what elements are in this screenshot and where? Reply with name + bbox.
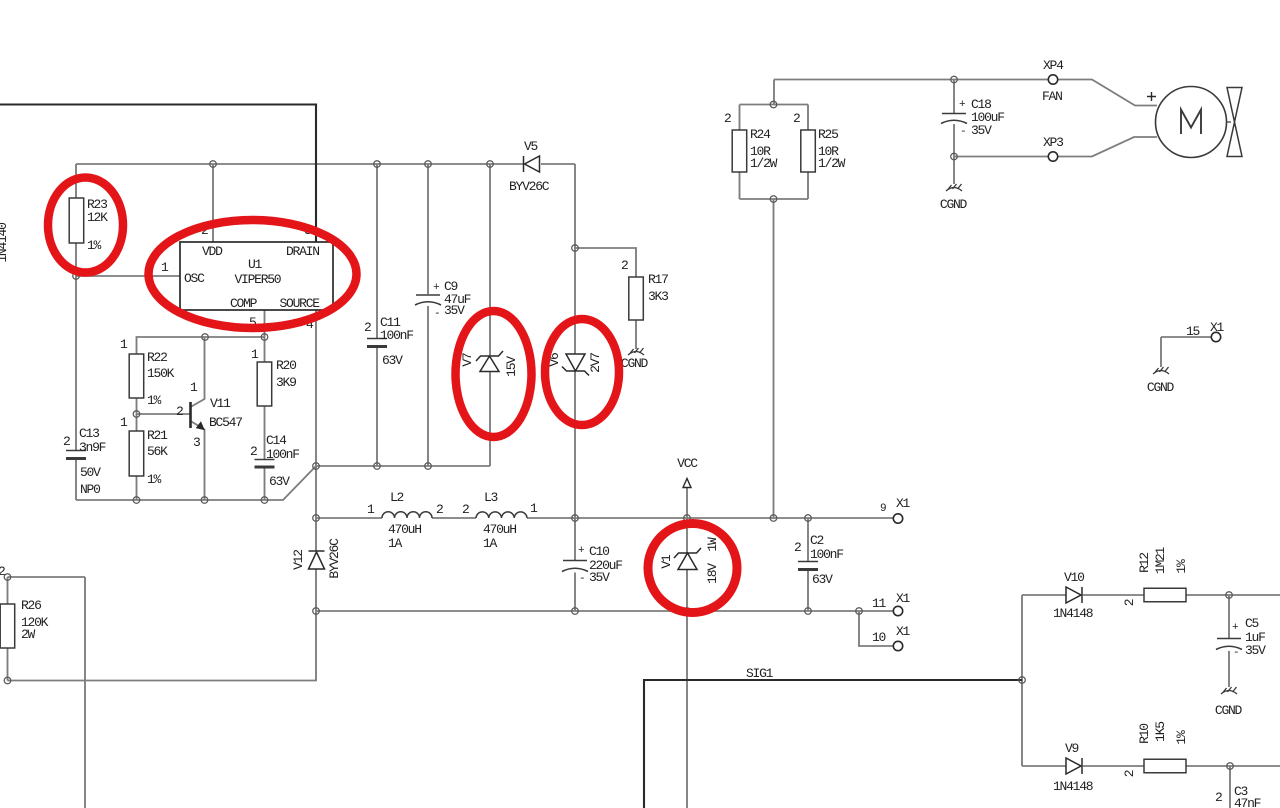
svg-text:X1: X1 [896, 496, 911, 511]
zener V7 15V [476, 351, 503, 372]
marker ellipse around V7 [456, 311, 532, 437]
svg-text:COMP: COMP [230, 296, 258, 311]
svg-text:3K9: 3K9 [276, 375, 296, 390]
node C9 top [425, 161, 432, 168]
svg-text:2: 2 [462, 502, 469, 517]
svg-text:1%: 1% [147, 393, 162, 408]
wire R21 top lead [136, 414, 138, 431]
svg-text:2: 2 [1215, 790, 1222, 805]
wire R22 top lead [137, 337, 265, 354]
motor M1 body [1156, 87, 1227, 158]
node source/gnd [313, 463, 320, 470]
wire bottom rail of divider [76, 466, 316, 500]
svg-text:C14: C14 [266, 433, 287, 448]
svg-text:1/2W: 1/2W [750, 156, 778, 171]
node source/LC [313, 515, 320, 522]
svg-text:XP3: XP3 [1043, 135, 1063, 150]
svg-text:56K: 56K [147, 444, 168, 459]
node C11 bottom [374, 463, 381, 470]
zener V6 2V7 [562, 354, 589, 376]
svg-text:X1: X1 [896, 624, 911, 639]
node V7 top [487, 161, 494, 168]
resistor R21 [129, 431, 144, 476]
node gnd rail C [261, 497, 268, 504]
wire C14 bottom lead [264, 467, 266, 500]
svg-text:V5: V5 [524, 139, 538, 154]
wire R12 to edge [1186, 594, 1280, 596]
ground CGND under X1-15 [1153, 367, 1169, 374]
wire SIG1 net [644, 680, 1022, 808]
wire V6 bottom lead [574, 372, 576, 519]
node VCC [684, 515, 691, 522]
wire V12 to node [315, 569, 317, 611]
node gnd rail A [133, 497, 140, 504]
svg-text:35V: 35V [444, 303, 465, 318]
wire R24 bottom lead [739, 172, 741, 199]
svg-text:2: 2 [621, 258, 628, 273]
zener V1 18V [674, 548, 701, 570]
wire R17 branch [575, 248, 636, 277]
wire V9 row left [1022, 765, 1066, 767]
svg-text:18V: 18V [705, 563, 720, 584]
svg-text:1K5: 1K5 [1153, 722, 1168, 742]
node C2 top [805, 515, 812, 522]
inductor L2 coils [382, 512, 432, 518]
wire R24 R25 bottom bracket [740, 198, 809, 200]
wire R24 top lead [739, 105, 741, 131]
resistor R20 [257, 362, 272, 406]
wire L3 to X1-9 [527, 517, 893, 519]
svg-text:-: - [434, 308, 439, 320]
wire VDD rail [76, 163, 523, 165]
node C11 top [374, 161, 381, 168]
svg-text:C13: C13 [79, 426, 99, 441]
wire LC rail [316, 517, 382, 519]
wire V11 emitter [191, 421, 205, 500]
node C2 bottom [805, 608, 812, 615]
fan blades [1227, 88, 1242, 157]
svg-text:1M21: 1M21 [1153, 546, 1168, 574]
svg-text:2: 2 [63, 434, 70, 449]
terminal X1 pin 15 [1211, 332, 1220, 341]
svg-text:1W: 1W [705, 537, 720, 552]
ground CGND under C5 [1221, 687, 1237, 694]
wire VCC stem [686, 487, 688, 518]
wire OSC [76, 275, 180, 277]
svg-text:150K: 150K [147, 366, 175, 381]
marker ellipse around V6 [545, 319, 619, 425]
svg-text:R26: R26 [21, 598, 41, 613]
wire node to R26 return [8, 611, 317, 681]
resistor R12 [1144, 588, 1186, 602]
capacitor C10 plates [562, 561, 588, 572]
svg-text:V11: V11 [210, 396, 231, 411]
wire V10 row left [1022, 594, 1066, 596]
node R26 bottom [4, 677, 11, 684]
wire R23 bottom lead [75, 243, 77, 276]
svg-text:1N4148: 1N4148 [1053, 606, 1093, 621]
diode V10 1N4148 [1066, 587, 1082, 603]
terminal XP3 [1048, 152, 1057, 161]
ground CGND under C18 [946, 184, 962, 191]
svg-text:C10: C10 [589, 544, 609, 559]
wire V1 top lead [686, 518, 688, 553]
svg-text:-: - [1233, 647, 1238, 659]
wire R17 bottom lead [635, 320, 637, 349]
svg-text:SIG1: SIG1 [746, 666, 774, 681]
ground CGND under R17 [628, 348, 644, 355]
svg-text:1%: 1% [1174, 559, 1189, 574]
terminal XP4 [1048, 75, 1057, 84]
motor plus sign [1147, 92, 1156, 101]
svg-text:1A: 1A [388, 536, 403, 551]
svg-text:100nF: 100nF [810, 547, 843, 562]
svg-text:35V: 35V [589, 570, 610, 585]
svg-text:1N4140: 1N4140 [0, 223, 10, 263]
svg-text:U1: U1 [248, 257, 263, 272]
wire R25 top lead [807, 105, 809, 131]
wire R20 bottom lead / C14 top [264, 406, 266, 459]
svg-text:L2: L2 [390, 490, 404, 505]
svg-text:63V: 63V [269, 474, 290, 489]
node C10 bottom [572, 608, 579, 615]
wire C13 bottom lead [75, 459, 77, 500]
node R17 tap [572, 245, 579, 252]
wire R24 R25 top bracket [740, 104, 809, 106]
svg-text:R21: R21 [147, 428, 168, 443]
wire C2 bottom lead [807, 570, 809, 611]
marker ellipse around V1 [648, 524, 737, 613]
svg-text:2: 2 [724, 111, 731, 126]
wire output rail [316, 610, 893, 612]
wire V6 top lead [574, 248, 576, 354]
svg-text:3: 3 [193, 435, 200, 450]
svg-text:+: + [959, 99, 965, 111]
node base divider [133, 411, 140, 418]
svg-text:100nF: 100nF [266, 447, 299, 462]
svg-text:63V: 63V [812, 572, 833, 587]
svg-text:1/2W: 1/2W [818, 156, 846, 171]
svg-text:2: 2 [364, 320, 371, 335]
resistor R22 [129, 354, 144, 398]
svg-text:2: 2 [1122, 599, 1137, 606]
svg-text:FAN: FAN [1042, 89, 1062, 104]
capacitor C11 plates [367, 339, 387, 347]
capacitor C18 plates [941, 114, 967, 124]
svg-text:15V: 15V [504, 356, 519, 377]
wire between L2 L3 [432, 517, 476, 519]
svg-text:+: + [1232, 622, 1238, 634]
wire C18 top lead [953, 80, 955, 114]
svg-text:R24: R24 [750, 127, 771, 142]
terminal X1 pin 10 [893, 641, 902, 650]
svg-text:3n9F: 3n9F [79, 440, 106, 455]
svg-text:2: 2 [793, 111, 800, 126]
node OSC/R23 [73, 273, 80, 280]
svg-text:L3: L3 [484, 490, 498, 505]
transistor V11 emitter arrow [197, 422, 204, 429]
svg-text:470uH: 470uH [483, 522, 516, 537]
wire V11 base [137, 413, 190, 415]
terminal X1 pin 9 [893, 514, 902, 523]
wire R26 top link [8, 576, 86, 578]
wire V7 top lead [489, 164, 491, 355]
svg-text:VCC: VCC [677, 456, 698, 471]
svg-text:2: 2 [250, 444, 257, 459]
node VDD-pin2 [210, 161, 217, 168]
resistor R25 [801, 130, 816, 172]
resistor R24 [732, 130, 747, 172]
resistor R23 [69, 198, 84, 243]
svg-text:VDD: VDD [202, 244, 223, 259]
wire corner V5 to V6 [574, 164, 576, 248]
wire fan net down to VCC rail [773, 199, 775, 518]
wire V1 return down [686, 611, 688, 808]
wire X1-15 to CGND [1160, 337, 1162, 367]
svg-text:NP0: NP0 [80, 482, 100, 497]
capacitor C14 plates [255, 460, 275, 468]
svg-text:63V: 63V [382, 353, 403, 368]
node R12/C5 [1226, 592, 1233, 599]
wire C11 bottom lead [376, 347, 378, 466]
svg-text:CGND: CGND [1147, 380, 1175, 395]
svg-text:100nF: 100nF [380, 328, 413, 343]
svg-text:V9: V9 [1065, 741, 1079, 756]
wire R26 bottom lead [7, 648, 9, 681]
node SIG1/feedback [1019, 677, 1026, 684]
svg-text:2: 2 [436, 502, 443, 517]
svg-text:V7: V7 [460, 353, 475, 367]
svg-text:2: 2 [794, 540, 801, 555]
wire V7 bottom lead [489, 372, 491, 467]
node V1 out [684, 608, 691, 615]
svg-text:47nF: 47nF [1234, 796, 1261, 808]
wire SOURCE pin down [315, 310, 317, 551]
wire X1-10 branch [859, 611, 893, 646]
svg-text:+: + [433, 282, 439, 294]
wire C13 top lead [75, 276, 77, 450]
svg-text:1%: 1% [147, 472, 162, 487]
svg-text:470uH: 470uH [388, 522, 421, 537]
svg-text:1%: 1% [87, 238, 102, 253]
svg-text:OSC: OSC [184, 271, 205, 286]
node fan bracket bottom [770, 196, 777, 203]
node fan bracket top [770, 101, 777, 108]
svg-text:CGND: CGND [940, 197, 968, 212]
wire fan feed corner [773, 80, 775, 105]
node C18 bottom [951, 153, 958, 160]
wire C9 top lead [427, 164, 429, 294]
svg-text:2W: 2W [21, 627, 36, 642]
svg-text:10: 10 [872, 630, 886, 645]
terminal X1 pin 11 [893, 606, 902, 615]
wire C3 top lead [1229, 766, 1231, 808]
svg-text:R17: R17 [648, 272, 668, 287]
wire X1-15 stub [1161, 336, 1211, 338]
svg-text:2: 2 [176, 404, 183, 419]
wire C18 to CGND [953, 157, 955, 185]
svg-text:-: - [579, 573, 584, 585]
diode V9 1N4148 [1066, 758, 1082, 774]
svg-text:SOURCE: SOURCE [280, 296, 321, 311]
svg-text:X1: X1 [1210, 320, 1225, 335]
node R10/C3 [1227, 763, 1234, 770]
wire C2 top lead [807, 518, 809, 561]
svg-text:VIPER50: VIPER50 [235, 272, 281, 287]
svg-text:X1: X1 [896, 591, 911, 606]
wire C5 to CGND [1228, 651, 1230, 687]
wire gnd rail under caps [316, 465, 490, 467]
wire C5 top lead [1228, 595, 1230, 638]
node collector rail B [261, 334, 268, 341]
motor M1 letter [1181, 110, 1201, 135]
resistor R10 [1144, 759, 1186, 773]
wire C9 bottom lead [427, 306, 429, 466]
marker ellipse around U1 [149, 220, 357, 328]
svg-text:BYV26C: BYV26C [327, 538, 342, 579]
wire C10 top lead [574, 518, 576, 560]
wire VDD rail right of V5 [541, 163, 575, 165]
node R26 top [4, 574, 11, 581]
svg-text:BYV26C: BYV26C [509, 179, 550, 194]
capacitor C2 plates [798, 562, 818, 570]
node C10 top [572, 515, 579, 522]
svg-text:V10: V10 [1064, 570, 1084, 585]
wire C18 bottom lead [953, 124, 955, 157]
svg-text:R12: R12 [1137, 553, 1152, 573]
svg-text:3K3: 3K3 [648, 289, 668, 304]
wire R25 bottom lead [807, 172, 809, 199]
node collector rail A [202, 334, 209, 341]
svg-text:C2: C2 [810, 533, 824, 548]
node X1-10 tap [856, 608, 863, 615]
svg-text:2V7: 2V7 [588, 353, 603, 373]
marker ellipse around R23 [48, 178, 123, 273]
svg-text:R25: R25 [818, 127, 838, 142]
svg-text:R22: R22 [147, 350, 167, 365]
svg-text:XP4: XP4 [1043, 58, 1064, 73]
diode V12 BYV26C [309, 551, 325, 569]
inductor L3 coils [476, 512, 527, 518]
wire V10 to R12 [1083, 594, 1144, 596]
wire R26 top lead [7, 577, 9, 604]
wire R22 bottom lead [136, 398, 138, 414]
svg-text:15: 15 [1186, 324, 1200, 339]
svg-text:V1: V1 [659, 554, 674, 569]
svg-text:V12: V12 [291, 550, 306, 570]
svg-text:2: 2 [1122, 770, 1137, 777]
node C9 bottom [425, 463, 432, 470]
svg-text:CGND: CGND [1215, 703, 1243, 718]
wire R23 top lead [75, 164, 77, 198]
ic U1 VIPER50 body [180, 242, 333, 310]
wire feedback vertical [1021, 595, 1023, 766]
node source/out [313, 608, 320, 615]
svg-text:12K: 12K [87, 210, 108, 225]
diode V5 BYV26C [524, 156, 540, 172]
svg-text:+: + [578, 545, 584, 557]
resistor R17 [629, 277, 644, 320]
svg-text:50V: 50V [80, 465, 101, 480]
svg-text:-: - [960, 126, 965, 138]
wire C11 top lead [376, 164, 378, 338]
svg-text:DRAIN: DRAIN [286, 244, 319, 259]
transistor V11 base bar [189, 402, 192, 428]
node fan/VCC rail [770, 515, 777, 522]
svg-text:9: 9 [880, 503, 886, 515]
wire COMP pin 5 [264, 310, 266, 337]
wire left drop [84, 577, 86, 808]
node C18 top [951, 76, 958, 83]
wire VDD pin 2 [212, 164, 214, 242]
svg-text:35V: 35V [971, 123, 992, 138]
svg-text:11: 11 [872, 596, 887, 611]
capacitor C13 plates [66, 451, 86, 459]
svg-text:2: 2 [0, 564, 5, 579]
wire V9 to R10 [1083, 765, 1144, 767]
svg-text:35V: 35V [1245, 643, 1266, 658]
wire XP4 feed [774, 79, 1048, 81]
wire V1 bottom lead [686, 570, 688, 612]
svg-text:1%: 1% [1174, 730, 1189, 745]
svg-text:CGND: CGND [621, 356, 649, 371]
wire R20 top lead [264, 337, 266, 362]
wire XP4 to motor [1058, 80, 1157, 106]
node gnd rail B [201, 497, 208, 504]
wire motor to fan blades [1226, 121, 1231, 123]
wire C10 bottom lead [574, 573, 576, 612]
capacitor C9 plates [415, 295, 441, 305]
wire V11 collector [191, 337, 205, 407]
svg-text:R10: R10 [1137, 724, 1152, 744]
svg-text:1N4148: 1N4148 [1053, 779, 1093, 794]
svg-text:R20: R20 [276, 358, 296, 373]
wire R10 to edge [1186, 765, 1280, 767]
power flag VCC arrow [683, 479, 691, 488]
svg-text:BC547: BC547 [209, 415, 242, 430]
capacitor C5 plates [1216, 639, 1242, 650]
resistor R26 [0, 604, 15, 648]
wire XP3 feed [954, 156, 1048, 158]
svg-text:1A: 1A [483, 536, 498, 551]
svg-text:C5: C5 [1245, 616, 1259, 631]
wire mains top [0, 105, 316, 243]
wire R21 bottom lead [136, 476, 138, 500]
wire XP3 to motor [1058, 137, 1157, 157]
